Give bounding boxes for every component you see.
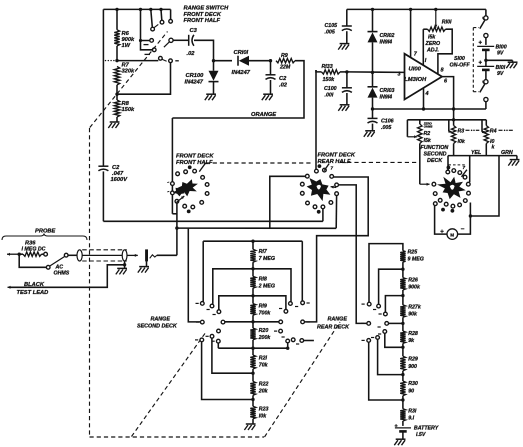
svg-text:R30: R30 (408, 381, 418, 387)
resistor R31 9.1 (400, 409, 405, 421)
resistor R27 90k (400, 305, 405, 317)
switch contact S-F1 b (152, 48, 156, 52)
resistor R7 320k (114, 67, 119, 85)
svg-text:CRI02: CRI02 (380, 33, 395, 39)
meter M (447, 229, 458, 240)
svg-text:900k: 900k (408, 284, 421, 290)
wire R7R8 junction to contact loop (117, 63, 171, 94)
jack hook wire (150, 255, 157, 258)
wire R30 tap loop (378, 339, 403, 374)
svg-text:R9: R9 (281, 53, 288, 59)
svg-text:IN9I4: IN9I4 (380, 95, 393, 101)
dashed gang marks R4 (499, 129, 503, 131)
wire W2 end up to contact (335, 196, 337, 229)
dashed linkage bottom horizontal (90, 436, 265, 438)
lever dash function rotary (462, 170, 467, 177)
wire horizontal to rear-half rotary bottom contact (103, 220, 323, 222)
resistor R2 15k function zero (419, 120, 421, 124)
dashed linkage diagonal top-left (90, 32, 168, 128)
svg-text:RI8: RI8 (259, 277, 267, 283)
switch contact S-F1 a (150, 39, 154, 43)
switch lever AC-OHMS (50, 257, 64, 266)
svg-text:C2: C2 (279, 76, 287, 82)
wire range switch contact feeds (141, 9, 150, 40)
node grn junction (469, 214, 472, 217)
wire top-left supply rail (103, 8, 170, 10)
R101 wiper from rail (435, 9, 437, 27)
switch contact S-F1 g (169, 19, 173, 23)
resistor R26 900k (400, 278, 405, 290)
svg-text:ORANGE: ORANGE (251, 112, 276, 118)
wire YEL down to rotary (469, 156, 471, 183)
wire R29 tap loop (385, 333, 403, 347)
op-amp U100 LM310H (405, 54, 443, 100)
node R20 bottom (251, 347, 254, 350)
wiper arrow front half rotary (177, 196, 185, 202)
second deck right contact ticks (295, 306, 298, 308)
resistor R23 10k (250, 406, 255, 419)
svg-text:BATTERY: BATTERY (414, 426, 439, 432)
switch contact S-F1 c (159, 56, 163, 60)
rear deck contact ticks (362, 303, 365, 305)
wire R22 tap to contact (202, 342, 253, 400)
capacitor C2 .047 1600V (98, 165, 108, 167)
wire level2 loop (213, 269, 291, 304)
wire left vertical bus (102, 9, 104, 166)
svg-text:R2I: R2I (259, 355, 268, 361)
node CR102-CR103 junction (371, 71, 374, 74)
resistor R21 70k (250, 355, 255, 369)
svg-text:I0k: I0k (259, 413, 267, 419)
switch S100 upper (485, 9, 487, 15)
rear deck contacts (367, 302, 371, 306)
node marker dots front half rotary (188, 165, 192, 169)
svg-text:R29: R29 (408, 356, 418, 362)
svg-text:CRI0I: CRI0I (234, 50, 249, 56)
wire R3 R4 bottoms to yel-grn bus (453, 144, 455, 156)
wire wiper contact down to junction (176, 203, 178, 255)
svg-text:.02: .02 (187, 51, 196, 57)
svg-text:2 MEG: 2 MEG (258, 283, 275, 289)
wire orange down to front-half rotary (171, 118, 173, 214)
svg-text:9V: 9V (497, 51, 504, 57)
dashed gang marks R3 (466, 129, 470, 131)
svg-text:4: 4 (425, 91, 429, 97)
ground below C2 (263, 93, 273, 95)
switch contact DC (44, 252, 48, 256)
wire outer left loop (188, 229, 200, 322)
wire pole to C3 (173, 39, 188, 41)
resistor R20 200k (250, 328, 255, 340)
resistor R28 9k (400, 331, 405, 343)
wire box top left vertical (202, 241, 204, 301)
resistor R133 150k (316, 70, 322, 72)
svg-text:70k: 70k (259, 362, 269, 368)
resistor R36 1 MEG DC (23, 252, 42, 256)
svg-text:BLACK: BLACK (24, 282, 45, 288)
wire bottom level (218, 347, 287, 349)
wire R133 node to op-amp pin 3 (347, 71, 405, 74)
wire R28 tap (389, 322, 403, 324)
svg-text:+: + (479, 41, 483, 47)
resistor R25 9 MEG (400, 251, 405, 262)
switch contact S-F1 d (169, 59, 173, 63)
node marker dots function rotary (447, 166, 451, 170)
svg-text:90k: 90k (408, 311, 418, 317)
wire level3 loop (219, 296, 286, 310)
svg-text:YEL: YEL (471, 150, 481, 156)
lever dash rear rotary (324, 164, 329, 171)
resistor R9 22M (276, 59, 295, 63)
svg-text:R26: R26 (408, 277, 418, 283)
resistor R22 20k (250, 381, 255, 395)
ground right of bus (516, 156, 518, 160)
svg-text:RANGE: RANGE (328, 317, 348, 323)
svg-text:.005: .005 (325, 30, 335, 36)
wire right contact stub (304, 340, 314, 342)
node marker dots rear rotary (318, 164, 322, 168)
svg-text:R27k: R27k (408, 305, 422, 311)
node R22 bottom (251, 398, 254, 401)
resistor R101 15k zero adj (423, 28, 427, 30)
svg-text:C106: C106 (381, 119, 394, 125)
svg-text:FRONT DECK: FRONT DECK (176, 154, 214, 160)
svg-text:9 MEG: 9 MEG (408, 256, 424, 262)
node battery center tap (484, 59, 487, 62)
resistor R19 700k (250, 304, 255, 316)
svg-text:RI33: RI33 (322, 64, 333, 70)
svg-text:.005: .005 (381, 125, 391, 131)
wire node up to rotary contact (469, 203, 471, 217)
wire jack to range switch (157, 254, 177, 256)
node R7-R8 junction (115, 93, 118, 96)
svg-text:R23: R23 (259, 407, 269, 413)
svg-text:REAR DECK: REAR DECK (317, 325, 350, 331)
svg-text:90: 90 (408, 388, 414, 394)
svg-text:700k: 700k (259, 310, 272, 316)
diode CR103 1N914 (368, 86, 378, 88)
svg-text:900: 900 (408, 364, 417, 370)
wire probe tip arrow (7, 253, 19, 255)
node R29-R30 (401, 373, 404, 376)
svg-text:1600V: 1600V (111, 177, 129, 183)
wire coax to jack arrow (127, 254, 138, 256)
wire center tap to ground (486, 59, 513, 61)
resistor R17 7 MEG (252, 241, 254, 249)
svg-text:150k: 150k (323, 77, 336, 83)
wire pole to coax (68, 254, 77, 256)
svg-text:RI9: RI9 (259, 304, 267, 310)
node R26-R27 (401, 294, 404, 297)
node rail junction dots (115, 8, 118, 11)
svg-text:+: + (479, 61, 483, 67)
wire R26 loop (379, 269, 403, 304)
dashed linkage horizontal switch decks (206, 162, 314, 164)
rotor blob function rotary (437, 177, 466, 199)
svg-text:TEST LEAD: TEST LEAD (17, 290, 49, 296)
wire dotted stub left of R6-R7 junction (105, 60, 106, 61)
svg-text:C3: C3 (190, 28, 198, 34)
resistor R4 10k (485, 120, 487, 126)
capacitor C2 .02 (270, 61, 272, 75)
svg-text:.00I: .00I (325, 93, 334, 99)
svg-text:RANGE: RANGE (151, 317, 171, 323)
wire meter left to rotary (435, 206, 447, 234)
battery B100 9V (485, 38, 487, 45)
switch S100 lower (484, 80, 488, 84)
ground below CR100 (206, 93, 216, 95)
wire R31 tap loop (369, 342, 403, 400)
brace over probe (2, 234, 87, 241)
node R21 bottom (251, 372, 254, 375)
node R17-R18 (251, 267, 254, 270)
jack sleeve (145, 249, 148, 261)
svg-text:OHMS: OHMS (424, 124, 433, 128)
ground below R23 (246, 423, 256, 425)
node R18-R19 (251, 294, 254, 297)
node R25-R26 (401, 268, 404, 271)
ground below C100 (340, 104, 350, 106)
second deck left contacts (200, 302, 204, 306)
wire front-half left bus corner (172, 213, 177, 215)
pin 1 wire (422, 29, 424, 65)
wire R6-R7 junction to switch contact (117, 60, 158, 62)
wire R21 tap to contact (212, 338, 253, 373)
switch pole front deck front half (169, 38, 173, 42)
node junction at x177 y228 (175, 226, 178, 229)
svg-text:CRI03: CRI03 (380, 88, 395, 94)
ground below jack (146, 261, 148, 266)
wire bus left end down to function rotary (447, 156, 449, 171)
lever dash front half rotary (199, 163, 205, 172)
dashed linkage diagonal to second deck (132, 332, 207, 437)
wire branch up to rear rotary NW contact (270, 176, 306, 228)
resistor R3 10k (453, 120, 455, 126)
svg-text:UI00: UI00 (409, 67, 422, 73)
resistor R29 900 (400, 356, 405, 371)
wire below C2 to horizontal run (102, 171, 104, 221)
svg-text:M: M (450, 232, 454, 237)
node C100 junction (345, 70, 348, 73)
svg-text:ON-OFF: ON-OFF (450, 63, 471, 69)
svg-text:R25: R25 (408, 250, 418, 256)
node R19-R20 (251, 320, 254, 323)
pin 4 wire (423, 88, 425, 109)
node V- rail (371, 107, 374, 110)
svg-text:.02: .02 (279, 83, 288, 89)
R2 wiper loop (406, 120, 408, 137)
node R9-C2 junction (269, 59, 272, 62)
node R28-R29 (401, 346, 404, 349)
svg-text:I0k: I0k (458, 139, 466, 145)
svg-text:PROBE: PROBE (35, 229, 56, 235)
rotor blob front half rotary (177, 179, 198, 196)
svg-text:R28: R28 (408, 331, 418, 337)
svg-text:1W: 1W (122, 43, 131, 49)
svg-text:DECK: DECK (427, 158, 443, 164)
dashed linkage vertical left (89, 128, 91, 436)
svg-text:R4: R4 (490, 129, 497, 135)
ground coax shield (124, 265, 126, 269)
svg-text:RI7: RI7 (259, 249, 268, 255)
diode CR102 1N914 (372, 9, 374, 31)
svg-text:IN9I4: IN9I4 (380, 40, 393, 46)
svg-text:IN4247: IN4247 (185, 80, 204, 86)
node R27-R28 (401, 322, 404, 325)
wire R17 box top (203, 240, 302, 242)
wire box top right vertical (301, 241, 303, 301)
switch lever between contacts (162, 59, 166, 61)
svg-text:9.I: 9.I (408, 415, 414, 421)
svg-text:RI0I: RI0I (442, 20, 452, 26)
svg-text:R3I: R3I (408, 408, 417, 414)
resistor R8 150k (114, 100, 119, 117)
svg-text:I5k: I5k (428, 35, 436, 41)
node R30-R31 (401, 398, 404, 401)
capacitor C106 .005 (372, 109, 374, 118)
ground below R8 (116, 117, 118, 122)
svg-text:I.5V: I.5V (416, 432, 426, 438)
second deck left contact ticks (196, 302, 199, 304)
dashed box function deck (448, 164, 466, 166)
switch contact S-F1 f (160, 20, 164, 24)
pin 6 output wire (442, 77, 454, 120)
wire R25 top loop (369, 244, 403, 303)
capacitor C3 .02 (188, 35, 190, 46)
node coax shield tap (124, 261, 126, 265)
svg-text:200k: 200k (258, 335, 272, 341)
svg-text:–: – (461, 226, 465, 233)
svg-text:20k: 20k (258, 389, 269, 395)
wire output node to pot rail (452, 118, 455, 121)
svg-text:R20: R20 (259, 328, 269, 334)
wire meter right up (458, 216, 471, 234)
svg-text:150k: 150k (122, 107, 136, 113)
pin 7 wire (410, 9, 412, 57)
wire R133 corner down to rear-half rotary (315, 70, 317, 169)
second deck right contacts (289, 302, 293, 306)
switch contact AC (46, 265, 50, 269)
wire C3 to diode node (194, 40, 214, 60)
svg-text:ZERO: ZERO (425, 41, 442, 47)
wiper arrow rear rotary (331, 186, 337, 189)
svg-text:C105: C105 (325, 23, 338, 29)
ground below C105 (340, 43, 350, 45)
svg-text:FRONT DECK: FRONT DECK (318, 153, 356, 159)
svg-text:R3: R3 (458, 129, 465, 135)
wire level4 stubs (225, 321, 281, 323)
wire NE contact loop to right (304, 177, 368, 322)
svg-text:OHMS: OHMS (54, 270, 70, 276)
svg-text:FUNCTION: FUNCTION (421, 145, 449, 151)
rotary switch front deck front half ring contacts (176, 172, 180, 176)
svg-text:SECOND DECK: SECOND DECK (137, 323, 178, 329)
capacitor C100 .001 (346, 72, 348, 88)
svg-text:SI00: SI00 (454, 56, 465, 62)
svg-text:3: 3 (398, 72, 401, 78)
ground below C106 (365, 130, 375, 132)
node R6-R7 junction (115, 59, 118, 62)
svg-text:RANGE SWITCH: RANGE SWITCH (184, 6, 230, 12)
svg-text:320k: 320k (122, 69, 136, 75)
svg-text:SECOND: SECOND (424, 152, 447, 158)
svg-text:ADJ.: ADJ. (426, 48, 440, 54)
wire E contact loop inner (339, 185, 367, 324)
svg-text:I5k: I5k (424, 138, 432, 144)
switch pole probe (64, 253, 68, 257)
wire GRN down and to meter node (470, 156, 499, 216)
wire probe low side (19, 254, 46, 267)
svg-text:LM3IOH: LM3IOH (404, 77, 427, 83)
svg-text:9V: 9V (497, 71, 504, 77)
svg-text:22M: 22M (279, 65, 291, 71)
rotary switch front deck rear half ring contacts (315, 169, 319, 173)
wire shield to black test lead (9, 265, 125, 288)
svg-text:CR100: CR100 (186, 73, 205, 79)
svg-text:7 MEG: 7 MEG (259, 256, 275, 262)
svg-text:R2: R2 (424, 131, 431, 137)
node CR100-CR101 junction (212, 59, 215, 62)
resistor R18 2 MEG (250, 276, 255, 288)
svg-text:REAR HALF: REAR HALF (318, 159, 352, 165)
svg-text:FRONT DECK: FRONT DECK (184, 12, 222, 18)
svg-text:7: 7 (463, 165, 466, 170)
svg-text:I MEG DC: I MEG DC (22, 246, 46, 252)
wire V- rail (373, 108, 486, 110)
wire R2 bottom to function rotary (419, 144, 421, 185)
diode CR100 1N4247 (213, 61, 215, 71)
svg-text:R22: R22 (259, 382, 269, 388)
switch contact S-F1 e (151, 27, 155, 31)
svg-text:FRONT HALF: FRONT HALF (184, 18, 221, 24)
dashed bracket S100 (473, 27, 479, 29)
capacitor C105 .005 (346, 9, 348, 26)
resistor R6 900k 1W (116, 9, 118, 29)
rotary switch function second deck ring contacts (446, 170, 450, 174)
dashed linkage diagonal to rear deck (265, 322, 341, 437)
wire R9 to orange run (172, 61, 304, 118)
wire W2 from front deck junction (177, 227, 336, 229)
diode CR101 1N4247 (214, 60, 233, 62)
switch contact front half wiper feed (175, 199, 179, 203)
svg-text:IN4247: IN4247 (232, 70, 251, 76)
svg-text:C100: C100 (324, 86, 337, 92)
node probe junction (18, 253, 21, 256)
resistor R30 90 (400, 381, 405, 396)
node contact feed junction (139, 39, 142, 42)
wire top-right supply rail (347, 8, 486, 10)
node R17 top (251, 240, 254, 243)
wire R27 loop (385, 296, 403, 313)
coax cable shielded (77, 250, 82, 261)
ground below battery (396, 438, 406, 440)
svg-text:GRN: GRN (501, 150, 513, 156)
rotor blob rear half rotary (307, 178, 331, 201)
node rail dots (371, 8, 374, 11)
